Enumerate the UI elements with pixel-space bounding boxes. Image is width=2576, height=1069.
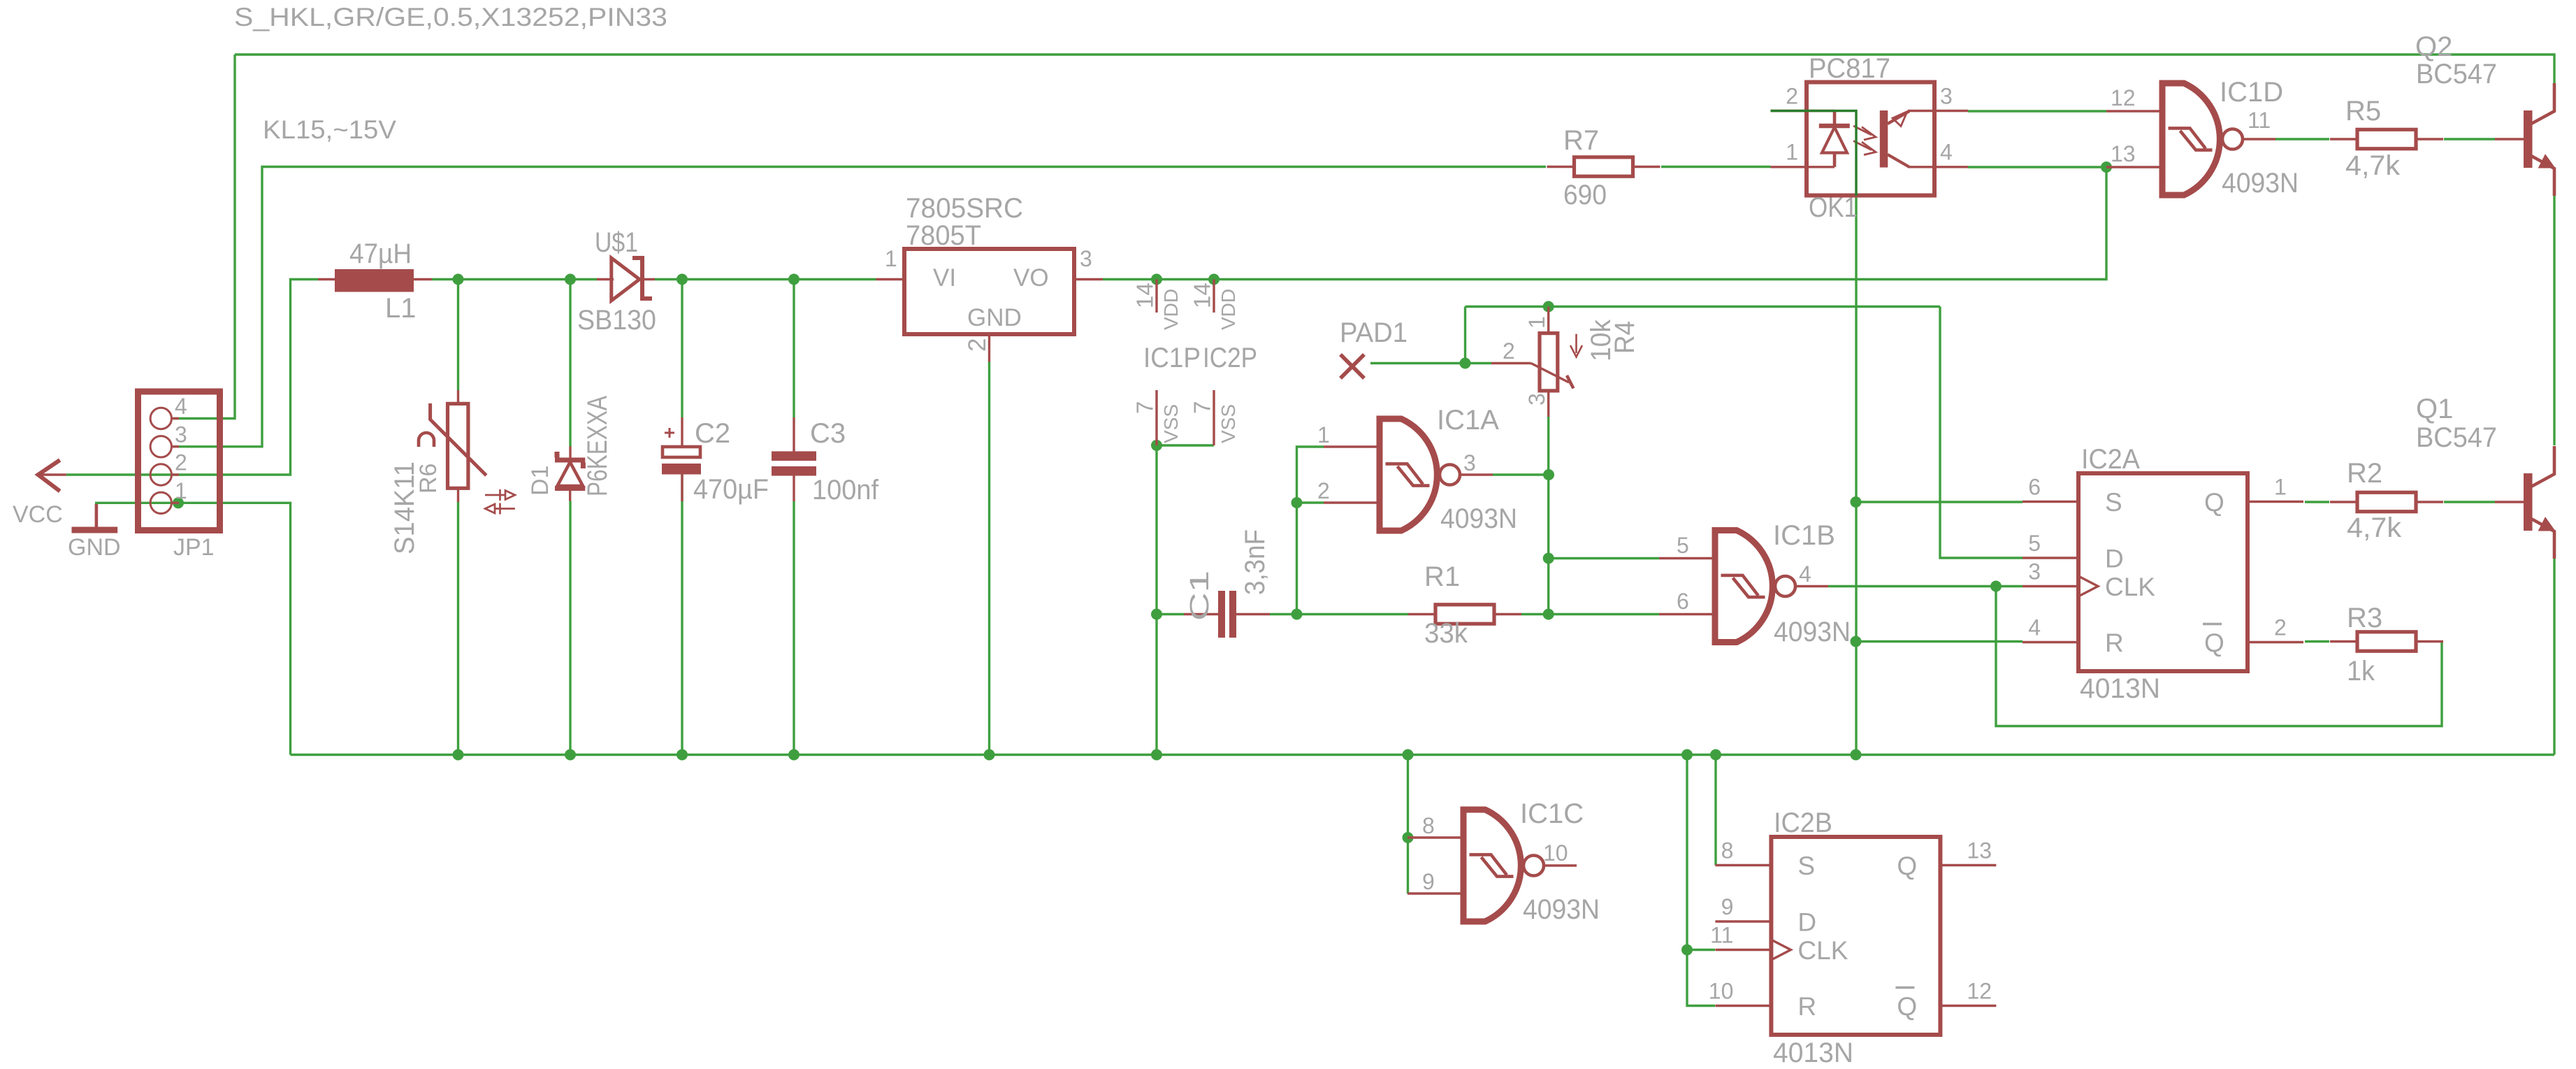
transistor Q1 emitter: [2531, 519, 2554, 559]
gate IC1C output pin 10: [1544, 864, 1577, 866]
D1 arrow mark lower: [485, 503, 515, 515]
IC2B pin 8 line: [1715, 864, 1771, 866]
node D1 tap: [565, 274, 576, 285]
svg-text:47µH: 47µH: [349, 238, 412, 269]
wire R pin of IC2A: [1856, 640, 2023, 643]
svg-text:3,3nF: 3,3nF: [1240, 529, 1271, 595]
node JP1 pin1: [173, 497, 184, 508]
gate IC1A input pin 1: [1324, 445, 1380, 447]
svg-text:R2: R2: [2347, 458, 2382, 489]
node IC1A in: [1291, 497, 1303, 508]
resistor R3 right pin: [2416, 640, 2443, 643]
svg-text:14: 14: [1132, 282, 1158, 308]
JP1 pin 2 stub: [172, 473, 180, 475]
wire KL15 net: [173, 167, 1546, 447]
svg-text:4: 4: [2028, 615, 2041, 640]
svg-text:4: 4: [1799, 561, 1811, 587]
capacitor C2 top pin: [681, 417, 683, 447]
wire R6 bottom: [457, 502, 459, 755]
R4 pin 3: [1547, 391, 1549, 417]
node IC1C in: [1403, 832, 1414, 843]
rail node IC1C: [1403, 749, 1414, 761]
wire VDD net +5V: [1103, 167, 2106, 280]
svg-text:11: 11: [1710, 923, 1733, 948]
OK1 LED bottom lead: [1833, 153, 1837, 167]
gate IC1D input pin 12: [2106, 110, 2162, 112]
svg-text:7805T: 7805T: [906, 220, 981, 251]
IC2B pin 12 line: [1940, 1005, 1996, 1007]
svg-text:1: 1: [1786, 140, 1798, 165]
inductor L1 right pin: [414, 278, 432, 280]
resistor R1 body: [1435, 605, 1494, 624]
transistor Q1 collector: [2531, 446, 2554, 487]
OK1 emitter diagonal: [1888, 155, 1909, 167]
node IC1A out: [1543, 469, 1554, 480]
wire Q1 emitter to rail: [2553, 559, 2555, 755]
rail node IC2B s: [1710, 749, 1721, 761]
resistor R7 left pin: [1547, 166, 1575, 168]
wire VCC to JP1 pin2 to L1: [66, 280, 318, 475]
svg-text:S: S: [2105, 488, 2122, 517]
node IC2B clk: [1681, 945, 1693, 956]
gate IC1B bubble: [1775, 576, 1795, 596]
svg-text:690: 690: [1563, 180, 1607, 210]
OK1 pin 3 line: [1908, 110, 1968, 112]
wire S_HKL net top rail: [235, 55, 2554, 84]
JP1 pin 3 circle: [150, 436, 171, 457]
svg-text:CLK: CLK: [2105, 573, 2155, 601]
OK1 photUS transistor base bar: [1880, 110, 1888, 168]
gate IC1B hysteresis mark: [1721, 575, 1765, 597]
IC2B pin 9 line: [1715, 920, 1771, 922]
IC2A pin 4 line: [2023, 641, 2078, 643]
svg-text:Q: Q: [2204, 488, 2224, 517]
flip-flop IC2B body: [1771, 837, 1940, 1035]
gate IC1A hysteresis mark: [1386, 464, 1430, 485]
IC2B pin 11 line: [1715, 949, 1771, 951]
svg-text:7: 7: [1189, 401, 1215, 414]
svg-text:4,7k: 4,7k: [2347, 512, 2402, 543]
power pin IC2P VSS stub: [1213, 390, 1215, 445]
JP1 pin 4 circle: [150, 408, 171, 429]
JP1 pin 2 circle: [150, 464, 171, 485]
wire IC1C input tie: [1407, 755, 1409, 894]
svg-text:12: 12: [2111, 85, 2136, 110]
gate IC1D input pin 13: [2106, 166, 2162, 168]
power pin IC2P VDD stub: [1213, 280, 1215, 313]
svg-text:IC2B: IC2B: [1774, 808, 1832, 838]
inductor L1 body: [335, 269, 414, 292]
varistor R6 diagonal: [430, 403, 486, 475]
node R1 right: [1543, 609, 1554, 620]
svg-text:Q1: Q1: [2416, 394, 2453, 424]
wire IC1B pin6: [1549, 613, 1659, 615]
rail node C2: [676, 749, 688, 761]
flip-flop IC2A body: [2078, 473, 2248, 671]
IC2A clock triangle: [2078, 576, 2098, 596]
svg-text:C1: C1: [1185, 571, 1215, 621]
IC2A pin 1 line: [2248, 501, 2303, 503]
rail node IC2B clk: [1681, 749, 1693, 761]
wire D1 bottom: [569, 501, 571, 755]
resistor R7 right pin: [1633, 166, 1660, 168]
transistor Q2 emitter arrow: [2539, 155, 2554, 168]
wire OK1 pin2 drop: [1855, 196, 1857, 755]
ground symbol bar: [72, 527, 118, 533]
capacitor C3 bottom pin: [793, 476, 795, 502]
svg-text:5: 5: [2028, 531, 2041, 556]
node C1 right: [1291, 609, 1303, 620]
wire 7805 GND to rail: [988, 362, 990, 755]
OK1 collector arrow: [1893, 112, 1907, 127]
wire PAD1 corner up: [1464, 307, 1466, 364]
connector JP1 body: [138, 392, 220, 531]
wire C2 bottom: [681, 475, 683, 755]
svg-text:VSS: VSS: [1217, 404, 1239, 443]
svg-text:4093N: 4093N: [1440, 503, 1517, 534]
resistor R5 body: [2357, 129, 2416, 148]
diode U$1 anode pin: [597, 278, 614, 280]
gate IC1C input pin 9: [1408, 892, 1463, 894]
svg-text:U$1: U$1: [595, 227, 638, 258]
node R4 pin1: [1543, 301, 1554, 313]
op-amp gate IC1B body: [1715, 531, 1772, 643]
wire D1 top: [569, 280, 571, 447]
varistor R6 top pin: [457, 390, 459, 403]
capacitor C3 bottom plate: [772, 466, 816, 476]
svg-text:3: 3: [1524, 393, 1549, 406]
wire OK1 pin4 to IC1D 13: [1968, 166, 2106, 168]
gate IC1C hysteresis mark: [1470, 854, 1514, 876]
svg-text:4: 4: [175, 394, 187, 419]
svg-text:R4: R4: [1609, 321, 1640, 354]
svg-text:12: 12: [1967, 979, 1992, 1004]
svg-text:4093N: 4093N: [2222, 168, 2299, 199]
svg-text:VCC: VCC: [13, 501, 63, 528]
node C2 tap: [676, 274, 688, 285]
svg-text:1k: 1k: [2347, 656, 2375, 687]
transistor Q2 base bar: [2524, 110, 2533, 168]
gate IC1B input pin 6: [1659, 613, 1715, 615]
svg-text:VI: VI: [933, 264, 956, 292]
diode U$1 triangle: [612, 258, 639, 301]
wire IC2B S tie: [1714, 755, 1716, 866]
svg-text:3: 3: [1080, 246, 1092, 271]
svg-text:2: 2: [1786, 84, 1798, 109]
svg-text:13: 13: [2111, 141, 2136, 166]
rail node OK1: [1851, 749, 1862, 761]
transistor Q2 emitter: [2531, 156, 2554, 196]
svg-text:D: D: [2105, 545, 2124, 573]
svg-text:IC1P: IC1P: [1143, 343, 1201, 373]
svg-text:33k: 33k: [1424, 618, 1468, 649]
supply VCC arrow: [38, 460, 60, 492]
transistor Q1 base bar: [2524, 473, 2533, 531]
svg-text:11: 11: [2248, 108, 2271, 133]
OK1 light arrow 2: [1853, 141, 1876, 155]
wire IC1B pin5: [1549, 557, 1659, 559]
transistor Q1 emitter arrow: [2539, 518, 2554, 531]
svg-text:6: 6: [2028, 475, 2041, 500]
op-amp gate IC1C body: [1463, 810, 1521, 921]
rail node 7805: [984, 749, 995, 761]
svg-text:D: D: [1797, 908, 1816, 937]
R4 adjust arrow: [1570, 334, 1582, 357]
resistor R5 left pin: [2330, 138, 2357, 140]
svg-text:2: 2: [1503, 338, 1515, 364]
resistor R2 right pin: [2416, 501, 2443, 503]
svg-text:KL15,~15V: KL15,~15V: [263, 115, 396, 144]
OK1 pin 1 line: [1771, 166, 1835, 168]
node PAD1-R4: [1460, 358, 1471, 369]
svg-text:OK1: OK1: [1809, 192, 1858, 223]
resistor R3 body: [2357, 632, 2416, 651]
node C1 left: [1151, 609, 1162, 620]
rail node C1: [1151, 749, 1162, 761]
svg-text:10: 10: [1543, 840, 1568, 866]
svg-text:S_HKL,GR/GE,0.5,X13252,PIN33: S_HKL,GR/GE,0.5,X13252,PIN33: [234, 3, 667, 31]
gate IC1D output pin 11: [2243, 138, 2275, 140]
svg-text:BC547: BC547: [2416, 59, 2497, 89]
wire R3 left: [2305, 640, 2329, 643]
svg-text:1: 1: [2274, 475, 2287, 500]
gate IC1A input pin 2: [1324, 501, 1380, 503]
IC2A pin 3 line: [2023, 585, 2078, 587]
capacitor C2 plus sign: [665, 428, 674, 438]
node S pin: [1851, 496, 1862, 508]
op-amp gate IC1A body: [1380, 419, 1437, 531]
capacitor C3 top plate: [772, 452, 816, 461]
JP1 pin 4 stub: [172, 417, 180, 419]
wire R5 to Q2 base: [2444, 138, 2495, 140]
diode U$1 schottky bar: [632, 258, 652, 299]
diode D1 cathode bar: [555, 452, 585, 468]
svg-text:S: S: [1797, 852, 1815, 880]
IC2A pin 2 line: [2248, 641, 2303, 643]
OK1 LED cathode bar: [1819, 124, 1850, 129]
svg-text:IC1B: IC1B: [1773, 520, 1835, 551]
wire IC1D out to R5: [2275, 138, 2329, 140]
svg-text:13: 13: [1967, 838, 1992, 863]
svg-text:CLK: CLK: [1797, 936, 1848, 965]
svg-text:R: R: [1797, 992, 1816, 1021]
node R pin: [1851, 636, 1862, 647]
node VDD to pin13: [2101, 162, 2112, 173]
D1 arrow mark upper: [485, 489, 515, 501]
OK1 pin 2 line: [1771, 110, 1835, 112]
resistor R2 body: [2357, 492, 2416, 511]
diode D1 top pin: [569, 447, 571, 461]
JP1 pin 1 circle: [150, 492, 171, 513]
svg-text:4093N: 4093N: [1523, 894, 1600, 925]
OK1 light arrow 1: [1853, 126, 1876, 140]
node IC1P VDD: [1151, 274, 1162, 285]
7805 pin2 GND line: [988, 334, 990, 362]
varistor R6 body: [448, 403, 468, 488]
varistor R6 hook: [419, 433, 434, 447]
node VSS: [1151, 440, 1162, 451]
transistor Q2 collector: [2531, 83, 2554, 124]
optocoupler OK1 body: [1807, 82, 1934, 196]
svg-text:R6: R6: [415, 464, 442, 494]
potentiometer R4 body: [1540, 333, 1558, 391]
svg-text:IC2P: IC2P: [1203, 343, 1257, 373]
svg-text:VSS: VSS: [1160, 404, 1182, 443]
7805 pin1 VI line: [876, 278, 905, 280]
svg-text:4013N: 4013N: [1773, 1038, 1853, 1068]
svg-text:D1: D1: [527, 466, 553, 496]
wire C2 top: [681, 280, 683, 418]
OK1 collector diagonal: [1888, 111, 1909, 124]
svg-text:R3: R3: [2347, 603, 2382, 633]
svg-text:PAD1: PAD1: [1340, 317, 1408, 348]
regulator U 7805 body: [904, 249, 1074, 334]
svg-text:BC547: BC547: [2416, 422, 2497, 453]
node IC1B pin5: [1543, 553, 1554, 564]
svg-text:IC2A: IC2A: [2081, 444, 2140, 475]
svg-text:GND: GND: [68, 534, 121, 561]
wire IC2B CLK R tie: [1687, 755, 1715, 1006]
node CLK: [1990, 581, 2002, 592]
diode D1 triangle: [558, 462, 584, 486]
svg-text:14: 14: [1189, 282, 1215, 308]
gate IC1B output pin 4: [1795, 585, 1828, 587]
rail node R6: [453, 749, 464, 761]
svg-text:3: 3: [175, 422, 187, 447]
wire D input of IC2A: [1940, 307, 2023, 559]
svg-text:R1: R1: [1424, 561, 1460, 592]
svg-text:P6KEXXA: P6KEXXA: [582, 396, 613, 496]
svg-text:IC1D: IC1D: [2220, 77, 2283, 108]
wire VSS tie: [1157, 445, 1214, 755]
wire IC1B out to CLK: [1828, 585, 2023, 587]
wire R6 top: [457, 280, 459, 391]
IC2B pin 10 line: [1715, 1005, 1771, 1007]
JP1 pin 1 stub: [172, 502, 180, 504]
svg-text:470µF: 470µF: [693, 474, 769, 505]
wire JP1 pin4 to S_HKL: [173, 55, 235, 419]
IC2B pin 13 line: [1940, 864, 1996, 866]
svg-text:8: 8: [1422, 813, 1435, 838]
wire R4 top net: [1466, 306, 1941, 308]
svg-text:IC1C: IC1C: [1520, 798, 1584, 829]
svg-text:4,7k: 4,7k: [2345, 150, 2401, 181]
gate IC1A output pin 3: [1460, 473, 1493, 475]
svg-text:VDD: VDD: [1217, 289, 1239, 330]
svg-text:Q2: Q2: [2415, 31, 2452, 62]
R4 wiper foot: [1567, 375, 1573, 389]
capacitor C1 right pin: [1236, 613, 1270, 615]
wire IC1A in tie: [1297, 447, 1324, 615]
svg-text:1: 1: [175, 478, 187, 503]
svg-text:5: 5: [1677, 533, 1689, 558]
svg-text:3: 3: [2028, 559, 2041, 584]
OK1 LED top lead: [1833, 111, 1837, 127]
gate IC1C input pin 8: [1408, 836, 1463, 838]
svg-text:L1: L1: [385, 293, 417, 324]
svg-text:R: R: [2105, 629, 2124, 657]
svg-text:6: 6: [1677, 589, 1689, 614]
svg-text:1: 1: [1524, 316, 1549, 329]
svg-text:2: 2: [175, 450, 187, 475]
resistor R5 right pin: [2416, 138, 2443, 140]
wire IC2B CLK stub: [1687, 949, 1715, 951]
node IC2P VDD: [1208, 274, 1220, 285]
wire R1 right: [1521, 613, 1549, 615]
svg-text:R7: R7: [1563, 125, 1599, 156]
diode D1 anode bar: [555, 486, 585, 491]
R4 wiper diagonal: [1531, 364, 1569, 383]
svg-text:JP1: JP1: [173, 534, 215, 561]
R4 pin 2 wiper line: [1491, 362, 1531, 364]
svg-text:GND: GND: [967, 304, 1022, 331]
svg-text:8: 8: [1721, 838, 1734, 863]
wire R7 to OK1 pin1: [1661, 166, 1771, 168]
svg-text:SB130: SB130: [577, 305, 656, 336]
wire JP1 pin1 GND net: [95, 503, 291, 754]
wire ground rail: [291, 754, 2555, 756]
capacitor C2 top plate: [663, 447, 700, 457]
diode D1 bottom pin: [569, 489, 571, 501]
gate IC1A bubble: [1440, 465, 1460, 485]
node L1-R6: [453, 274, 464, 285]
svg-text:9: 9: [1721, 894, 1734, 919]
PAD1 cross: [1340, 354, 1364, 378]
wire U$1 to 7805 VI: [655, 278, 876, 280]
wire osc node down: [1547, 475, 1549, 615]
supply VCC pin: [38, 473, 66, 475]
ground symbol stem: [95, 504, 99, 529]
inductor L1 left pin: [318, 278, 335, 280]
svg-text:4: 4: [1940, 140, 1953, 165]
op-amp gate IC1D body: [2162, 83, 2220, 195]
wire CLK loop to R3: [1996, 587, 2442, 726]
gate IC1C bubble: [1524, 856, 1544, 876]
OK1 LED triangle: [1822, 127, 1847, 153]
svg-text:100nf: 100nf: [812, 475, 879, 505]
capacitor C1 left pin: [1184, 613, 1218, 615]
svg-text:1: 1: [1317, 422, 1330, 447]
gate IC1D bubble: [2222, 129, 2243, 150]
resistor R2 left pin: [2330, 501, 2357, 503]
wire IC1A out to R4 wiper node: [1493, 417, 1549, 475]
svg-text:IC1A: IC1A: [1437, 405, 1499, 436]
resistor R1 left pin: [1408, 613, 1435, 615]
svg-text:Q: Q: [2204, 629, 2224, 657]
rail node C3: [788, 749, 799, 761]
svg-text:7: 7: [1132, 401, 1158, 414]
wire L1 to U$1: [432, 278, 597, 280]
transistor Q1 base pin: [2495, 501, 2524, 503]
svg-text:3: 3: [1940, 84, 1953, 109]
svg-text:C3: C3: [810, 418, 846, 449]
varistor R6 bottom pin: [457, 488, 459, 502]
svg-text:2: 2: [2274, 615, 2287, 640]
7805 pin3 VO line: [1074, 278, 1103, 280]
resistor R3 left pin: [2330, 640, 2357, 643]
gate IC1D hysteresis mark: [2169, 128, 2213, 150]
power pin IC1P VSS stub: [1155, 390, 1157, 445]
svg-text:C2: C2: [695, 418, 730, 449]
wire IC2A S net: [1856, 501, 2023, 503]
JP1 pin 3 stub: [172, 445, 180, 447]
svg-text:7805SRC: 7805SRC: [906, 193, 1023, 224]
IC2A Q-bar overline: [2203, 623, 2222, 625]
transistor Q2 base pin: [2495, 138, 2524, 140]
wire Q2 emitter to Q1 collector: [2553, 196, 2555, 445]
diode U$1 cathode pin: [642, 278, 655, 280]
IC2B Q-bar overline: [1895, 987, 1914, 989]
